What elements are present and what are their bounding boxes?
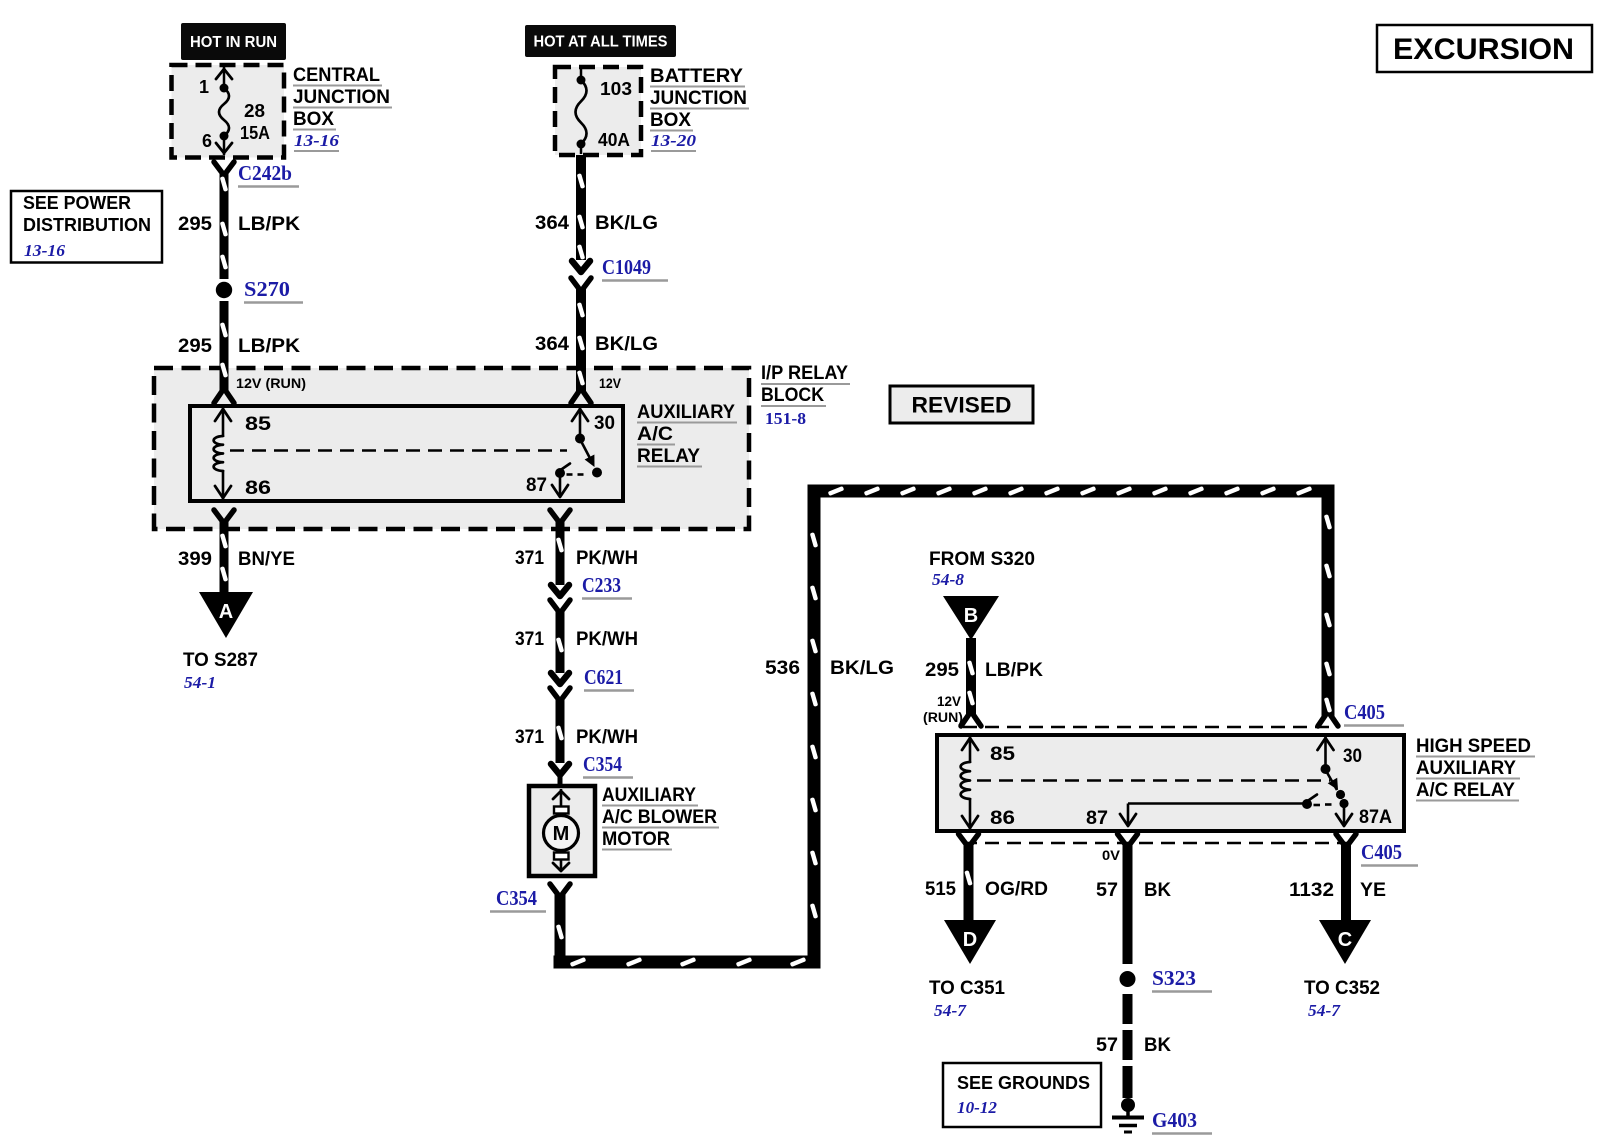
svg-text:BN/YE: BN/YE (238, 549, 295, 570)
svg-text:OG/RD: OG/RD (985, 879, 1048, 900)
svg-text:BK: BK (1144, 880, 1171, 901)
svg-text:30: 30 (1343, 746, 1362, 767)
svg-text:10-12: 10-12 (957, 1098, 997, 1117)
svg-text:BLOCK: BLOCK (761, 385, 824, 406)
svg-text:PK/WH: PK/WH (576, 727, 638, 748)
svg-text:C405: C405 (1361, 840, 1402, 864)
svg-text:I/P RELAY: I/P RELAY (761, 363, 848, 384)
svg-text:TO C351: TO C351 (929, 978, 1005, 999)
svg-text:57: 57 (1096, 1035, 1118, 1056)
svg-text:364: 364 (535, 334, 569, 355)
svg-text:TO C352: TO C352 (1304, 978, 1380, 999)
svg-text:12V: 12V (937, 694, 961, 709)
svg-text:LB/PK: LB/PK (238, 214, 300, 235)
svg-text:HIGH SPEED: HIGH SPEED (1416, 736, 1531, 757)
svg-text:364: 364 (535, 213, 569, 234)
svg-text:BOX: BOX (650, 110, 691, 131)
svg-text:BK/LG: BK/LG (830, 658, 894, 679)
svg-text:6: 6 (202, 131, 212, 151)
svg-text:BATTERY: BATTERY (650, 66, 743, 87)
svg-text:YE: YE (1360, 880, 1386, 901)
svg-text:S323: S323 (1152, 966, 1196, 990)
svg-text:B: B (964, 605, 978, 627)
svg-text:G403: G403 (1152, 1108, 1197, 1132)
svg-text:12V: 12V (599, 376, 621, 391)
svg-text:S270: S270 (244, 277, 290, 301)
svg-text:54-7: 54-7 (934, 1001, 968, 1020)
svg-text:A: A (219, 601, 233, 623)
svg-text:C354: C354 (496, 886, 537, 910)
svg-text:295: 295 (178, 336, 212, 357)
svg-text:A/C BLOWER: A/C BLOWER (602, 807, 717, 828)
svg-text:54-7: 54-7 (1308, 1001, 1342, 1020)
svg-text:M: M (553, 823, 570, 845)
svg-text:30: 30 (594, 413, 615, 434)
svg-text:54-8: 54-8 (932, 570, 965, 589)
svg-text:C621: C621 (584, 665, 623, 689)
svg-text:15A: 15A (240, 123, 270, 143)
svg-text:BOX: BOX (293, 109, 334, 130)
svg-text:C354: C354 (583, 752, 622, 776)
svg-text:BK: BK (1144, 1035, 1171, 1056)
svg-text:BK/LG: BK/LG (595, 213, 658, 234)
svg-text:0V: 0V (1102, 848, 1120, 863)
svg-text:295: 295 (178, 214, 212, 235)
svg-text:371: 371 (515, 548, 544, 569)
svg-text:JUNCTION: JUNCTION (650, 88, 747, 109)
svg-text:AUXILIARY: AUXILIARY (1416, 758, 1516, 779)
svg-text:86: 86 (990, 808, 1015, 829)
svg-text:SEE POWER: SEE POWER (23, 193, 131, 213)
svg-text:BK/LG: BK/LG (595, 334, 658, 355)
svg-text:MOTOR: MOTOR (602, 829, 670, 850)
svg-text:85: 85 (990, 744, 1016, 765)
svg-text:103: 103 (600, 79, 632, 99)
svg-text:D: D (963, 929, 977, 951)
svg-text:A/C RELAY: A/C RELAY (1416, 780, 1515, 801)
svg-text:EXCURSION: EXCURSION (1393, 33, 1574, 66)
svg-text:371: 371 (515, 629, 544, 650)
svg-text:LB/PK: LB/PK (238, 336, 300, 357)
svg-text:86: 86 (245, 478, 271, 499)
svg-text:C242b: C242b (238, 161, 292, 185)
svg-text:A/C: A/C (637, 424, 673, 445)
svg-text:CENTRAL: CENTRAL (293, 65, 380, 86)
svg-text:RELAY: RELAY (637, 446, 700, 467)
svg-text:85: 85 (245, 414, 272, 435)
svg-text:371: 371 (515, 727, 544, 748)
svg-text:54-1: 54-1 (184, 673, 216, 692)
svg-text:DISTRIBUTION: DISTRIBUTION (23, 215, 151, 235)
svg-text:536: 536 (765, 658, 800, 679)
svg-text:FROM S320: FROM S320 (929, 549, 1035, 570)
svg-text:SEE GROUNDS: SEE GROUNDS (957, 1073, 1090, 1093)
svg-text:PK/WH: PK/WH (576, 548, 638, 569)
svg-text:399: 399 (178, 549, 212, 570)
svg-text:AUXILIARY: AUXILIARY (637, 402, 735, 423)
svg-text:C: C (1338, 929, 1352, 951)
svg-text:TO S287: TO S287 (183, 650, 258, 671)
svg-text:(RUN): (RUN) (923, 710, 963, 725)
svg-text:HOT AT ALL TIMES: HOT AT ALL TIMES (534, 34, 668, 51)
svg-text:12V (RUN): 12V (RUN) (236, 376, 306, 391)
svg-text:REVISED: REVISED (912, 393, 1012, 418)
svg-text:87A: 87A (1359, 807, 1392, 828)
svg-text:515: 515 (925, 879, 956, 900)
svg-text:C1049: C1049 (602, 255, 651, 279)
svg-text:HOT IN RUN: HOT IN RUN (190, 34, 277, 51)
svg-text:1: 1 (199, 77, 209, 97)
svg-text:13-16: 13-16 (24, 241, 66, 260)
svg-text:87: 87 (526, 475, 547, 496)
svg-text:40A: 40A (598, 130, 630, 150)
svg-text:28: 28 (244, 101, 265, 121)
svg-text:LB/PK: LB/PK (985, 660, 1043, 681)
svg-text:JUNCTION: JUNCTION (293, 87, 390, 108)
svg-text:57: 57 (1096, 880, 1118, 901)
svg-text:87: 87 (1086, 808, 1108, 829)
svg-text:151-8: 151-8 (765, 409, 806, 428)
svg-text:C233: C233 (582, 573, 621, 597)
svg-text:AUXILIARY: AUXILIARY (602, 785, 696, 806)
svg-text:PK/WH: PK/WH (576, 629, 638, 650)
svg-text:13-20: 13-20 (651, 131, 697, 150)
svg-text:1132: 1132 (1289, 880, 1334, 901)
svg-text:C405: C405 (1344, 700, 1385, 724)
svg-text:13-16: 13-16 (294, 131, 340, 150)
svg-text:295: 295 (925, 660, 959, 681)
